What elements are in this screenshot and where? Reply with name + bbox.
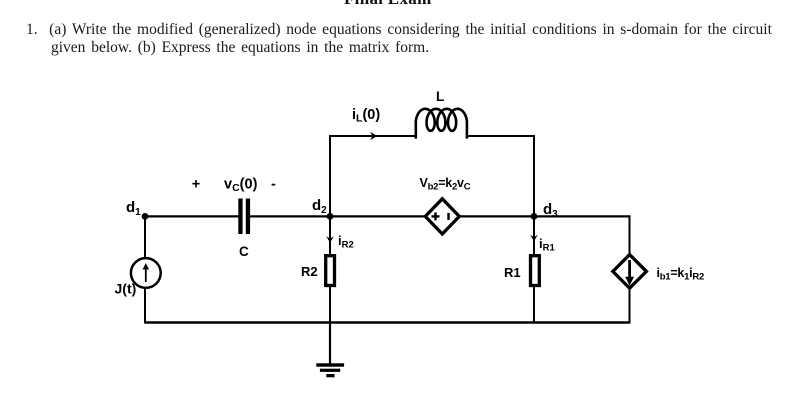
wire: right branch down through ib1 source [629, 216, 631, 256]
svg-text:d1: d1 [126, 199, 141, 218]
svg-text:d3: d3 [543, 201, 558, 220]
wire: d3 down through R1 to bottom rail [533, 216, 535, 256]
svg-text:R1: R1 [504, 265, 521, 280]
svg-text:R2: R2 [301, 264, 318, 279]
svg-text:+: + [192, 177, 200, 193]
node d1 [142, 213, 149, 220]
resistor R2 [326, 256, 335, 286]
svg-text:Vb2=k2vC: Vb2=k2vC [420, 176, 471, 193]
wire: d2 to Vb2 diamond [330, 215, 426, 217]
svg-text:J(t): J(t) [115, 281, 137, 297]
arrow iR2 [329, 228, 331, 240]
node d2 [327, 213, 334, 220]
svg-text:C: C [239, 244, 249, 259]
wire: d2 down through R2 to bottom rail [329, 216, 331, 256]
wire: d1 down to J(t) source [144, 216, 146, 259]
wire: ground stem below bottom rail [329, 323, 331, 366]
inductor L coil [416, 109, 467, 138]
dependent voltage source Vb2 diamond [425, 199, 459, 234]
wire: Vb2 diamond to d3 [459, 215, 534, 217]
svg-text:iR1: iR1 [539, 236, 555, 254]
problem statement text [26, 21, 772, 56]
svg-text:ib1=k1iR2: ib1=k1iR2 [657, 266, 705, 283]
wire: main horizontal d1 to capacitor [145, 215, 239, 217]
cut-off bold title at very top [344, 0, 432, 9]
arrow iL(0) on top wire [370, 132, 377, 141]
current source J(t) [131, 258, 161, 288]
svg-text:-: - [271, 177, 276, 193]
svg-text:iL(0): iL(0) [352, 107, 380, 125]
dependent current source ib1 diamond [613, 255, 647, 289]
svg-text:d2: d2 [312, 197, 327, 216]
resistor R1 [531, 256, 540, 286]
wire: inductor right side down to d3 [467, 136, 534, 216]
wire: J(t) source down to bottom rail [144, 287, 146, 324]
svg-text:L: L [436, 89, 444, 104]
wire: capacitor to d2 [250, 215, 330, 217]
wire: d2 up and right to inductor [330, 136, 416, 216]
capacitor C plates [238, 199, 242, 235]
svg-text:vC(0): vC(0) [224, 177, 258, 195]
wire: d3 to right corner [534, 215, 631, 217]
node d3 [531, 213, 538, 220]
svg-text:iR2: iR2 [338, 233, 354, 251]
wire: bottom rail [145, 321, 630, 323]
arrow iR1 [533, 222, 535, 236]
ground [316, 363, 344, 366]
